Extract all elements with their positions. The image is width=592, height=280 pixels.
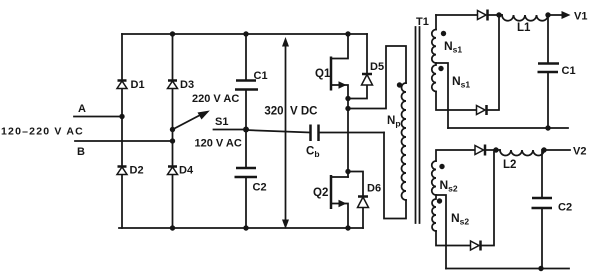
Ns2 upper phase dot (439, 164, 444, 169)
wire AC input line A (74, 116, 122, 118)
diode D6 (348, 172, 363, 229)
svg-text:C1: C1 (254, 70, 268, 82)
rectifier diode (V2 upper) (475, 146, 484, 155)
svg-text:120 V AC: 120 V AC (195, 138, 242, 150)
diode D1 (118, 79, 127, 82)
wire top bus (122, 33, 367, 35)
wire second bridge column (D3/D4 leg) (172, 34, 174, 228)
wire Ns2 center tap (436, 195, 446, 269)
wire Ns2 bottom lead (436, 231, 471, 246)
svg-text:D1: D1 (131, 79, 145, 91)
wire Ns1 center tap (436, 63, 448, 128)
node D3 top junction (170, 31, 175, 36)
wire half-bridge midpoint column (347, 99, 349, 178)
svg-text:S1: S1 (215, 116, 228, 128)
node L2 output junction (541, 147, 546, 152)
transformer secondary winding Ns1 upper (432, 30, 436, 64)
svg-text:C1: C1 (562, 65, 576, 77)
wire AC input line B (75, 140, 173, 142)
svg-text:320: 320 (264, 106, 283, 118)
node Q2 drain junction (345, 169, 350, 174)
transformer secondary winding Ns1 lower (432, 63, 436, 91)
wire Ns1 top lead (435, 15, 437, 30)
wire V2 output (544, 149, 570, 151)
rectifier diode (V2 lower) (471, 241, 480, 250)
node D4 bottom junction (170, 225, 175, 230)
node Q2 source junction (345, 225, 350, 230)
svg-text:V2: V2 (573, 146, 586, 158)
diode D3 (168, 79, 177, 82)
svg-text:120–220 V AC: 120–220 V AC (1, 126, 84, 138)
diode D4 (168, 165, 177, 168)
svg-text:B: B (77, 146, 85, 158)
primary phase dot (397, 82, 402, 87)
node V1 diode junction (496, 12, 501, 17)
wire V1 top rail (436, 14, 478, 16)
node B junction (170, 138, 175, 143)
capacitor C2 (input doubler) (235, 168, 258, 177)
capacitor Cb blocking (246, 130, 310, 133)
svg-text:Q1: Q1 (315, 68, 331, 80)
wire V1 return rail (448, 127, 568, 129)
svg-text:D5: D5 (370, 61, 384, 73)
svg-text:D4: D4 (179, 165, 194, 177)
wire bottom bus (119, 227, 363, 229)
wire Ns2 top lead and V2 rail start (436, 150, 475, 161)
wire Ns1 bottom lead (436, 92, 477, 111)
transformer secondary winding Ns2 lower (432, 195, 436, 231)
svg-text:L1: L1 (517, 22, 531, 34)
switch S1 pivot node (170, 127, 175, 132)
rectifier diode (V1 upper) (478, 11, 487, 20)
wire doubler capacitor column (245, 34, 247, 228)
svg-text:Q2: Q2 (313, 187, 328, 199)
wire primary top link (348, 46, 406, 109)
node Q1 source junction (345, 96, 350, 101)
diode D5 (348, 34, 367, 99)
svg-text:A: A (78, 103, 86, 115)
svg-text:T1: T1 (416, 16, 429, 28)
node C1 return junction (545, 125, 550, 130)
node Q1 drain junction (345, 31, 350, 36)
transistor Q2 (MOSFET) (331, 177, 348, 228)
inductor L1 (502, 15, 548, 21)
node A junction (119, 114, 124, 119)
capacitor C2 (output) (541, 150, 543, 269)
transistor Q1 (MOSFET) (331, 34, 348, 99)
svg-text:220 V AC: 220 V AC (192, 93, 239, 105)
svg-text:V1: V1 (574, 11, 587, 23)
capacitor C1 (output) (547, 15, 549, 128)
node doubler midpoint junction (243, 127, 249, 133)
switch S1 blade and arrow (173, 114, 204, 130)
node primary takeoff junction (345, 106, 350, 111)
capacitor C1 (input doubler) (235, 81, 258, 90)
Ns2 lower phase dot (437, 198, 442, 203)
inductor L2 (500, 150, 544, 156)
Ns1 upper phase dot (441, 31, 446, 36)
svg-text:C2: C2 (253, 182, 267, 194)
wire primary bottom link (384, 133, 406, 219)
svg-text:D2: D2 (130, 165, 144, 177)
node C1 top junction (243, 31, 248, 36)
svg-text:D3: D3 (180, 79, 194, 91)
switch S1 fixed contact (214, 129, 247, 131)
diode D2 (118, 165, 127, 168)
wire V1 output arrow (548, 14, 563, 16)
node C2 return junction (538, 266, 543, 271)
wire V2 return rail (446, 268, 569, 270)
transformer primary winding Np (402, 83, 407, 200)
node V2 diode junction (493, 147, 498, 152)
svg-text:V DC: V DC (290, 106, 317, 118)
svg-text:L2: L2 (503, 159, 516, 171)
320 V DC measurement arrow (285, 42, 287, 224)
rectifier diode (V1 lower) (477, 106, 486, 115)
node C2 bottom junction (243, 225, 248, 230)
transformer secondary winding Ns2 upper (432, 161, 436, 195)
transformer core (416, 27, 420, 223)
wire left bridge column (D1/D2 leg) (121, 34, 123, 228)
Ns1 lower phase dot (438, 66, 443, 71)
node L1 output junction (545, 12, 550, 17)
svg-text:C2: C2 (558, 202, 572, 214)
svg-text:D6: D6 (367, 183, 381, 195)
